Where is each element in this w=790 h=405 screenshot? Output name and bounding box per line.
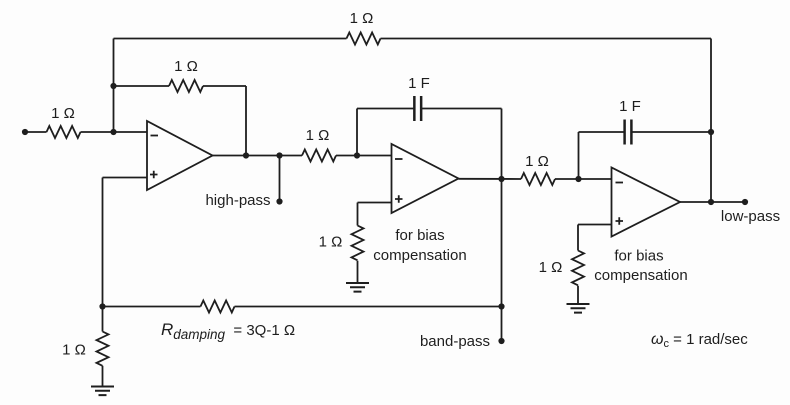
wire U3 output to low-pass terminal	[680, 201, 745, 203]
ground U2 bias	[346, 283, 369, 292]
capacitor C2 1 F	[625, 120, 632, 145]
node C junction dot feedback/output	[243, 152, 249, 158]
wire high-pass drop	[279, 156, 281, 202]
low-pass terminal dot	[742, 199, 748, 205]
wire node A up to node B and top net	[113, 39, 115, 133]
node B junction dot feedback tap	[110, 83, 116, 89]
wire damping net right segment	[235, 306, 502, 308]
wire cap C2 left vertical	[578, 132, 580, 179]
node H junction dot U3 minus	[575, 176, 581, 182]
wire U1 output	[213, 155, 303, 157]
wire cap C1 left horizontal	[357, 108, 414, 110]
resistor U1 feedback 1 ohm	[169, 80, 203, 92]
wire U3 plus down to bias resistor	[577, 225, 579, 251]
wire cap C2 right horizontal	[632, 131, 711, 133]
capacitor C1 1 F	[414, 96, 421, 121]
U1 plus sign	[150, 171, 158, 179]
wire U3 plus input left	[578, 224, 612, 226]
wire R23 to U3 minus input	[555, 178, 612, 180]
U3 plus sign	[616, 217, 624, 225]
wire U2 bias resistor to ground	[357, 261, 359, 283]
wire input to resistor	[25, 131, 47, 133]
svg-text:1 Ω: 1 Ω	[539, 259, 563, 276]
ground bottom-left	[91, 387, 114, 396]
wire U1 feedback right segment	[203, 85, 246, 87]
node junction dot U3 output	[708, 199, 714, 205]
wire U2 plus input left	[358, 202, 392, 204]
wire resistor to op-amp U1 minus input	[81, 131, 148, 133]
op-amp U1	[147, 121, 213, 190]
node F junction dot damping net	[99, 303, 105, 309]
wire node F down to ground resistor	[102, 307, 104, 332]
wire U1 plus input left	[103, 177, 148, 179]
svg-text:compensation: compensation	[594, 267, 687, 284]
resistor R input 1 ohm	[47, 126, 81, 138]
op-amp U3	[612, 168, 681, 237]
svg-text:1 Ω: 1 Ω	[525, 153, 549, 170]
wire cap C1 right horizontal	[421, 108, 501, 110]
svg-text:high-pass: high-pass	[205, 192, 270, 209]
resistor top feedback 1 ohm	[347, 33, 381, 45]
svg-text:low-pass: low-pass	[721, 208, 780, 225]
svg-text:1 Ω: 1 Ω	[62, 342, 86, 359]
ground U3 bias	[567, 304, 590, 313]
svg-text:Rdamping = 3Q-1 Ω: Rdamping = 3Q-1 Ω	[161, 320, 295, 342]
wire U1 feedback down to output	[245, 86, 247, 156]
wire R12 to U2 minus input	[336, 155, 392, 157]
svg-text:compensation: compensation	[373, 247, 466, 264]
U1 minus sign	[151, 135, 159, 137]
node U2 output junction dot	[498, 176, 504, 182]
op-amp U2	[392, 144, 459, 213]
band-pass terminal dot	[498, 338, 504, 344]
wire top net left segment	[114, 38, 347, 40]
svg-text:1 Ω: 1 Ω	[319, 234, 343, 251]
svg-text:for bias: for bias	[395, 227, 444, 244]
node A junction dot at U1 minus input	[110, 129, 116, 135]
wire band-pass vertical	[501, 179, 503, 341]
resistor 1 ohm to ground bottom-left	[97, 332, 109, 366]
svg-text:1 Ω: 1 Ω	[174, 58, 198, 75]
wire top net right segment	[381, 38, 712, 40]
resistor R23 1 ohm	[521, 173, 555, 185]
input terminal dot	[22, 129, 28, 135]
svg-text:ωc = 1 rad/sec: ωc = 1 rad/sec	[651, 331, 748, 350]
wire cap C1 right vertical to U2 output	[501, 109, 503, 180]
wire U1 feedback left segment	[114, 85, 170, 87]
svg-text:1 Ω: 1 Ω	[51, 105, 75, 122]
high-pass terminal dot	[276, 198, 282, 204]
node junction dot C2/low-pass net	[708, 129, 714, 135]
wire cap C1 left vertical	[356, 109, 358, 156]
wire U2 output	[459, 178, 522, 180]
svg-text:1 F: 1 F	[408, 75, 430, 92]
node D junction dot high-pass tap	[276, 152, 282, 158]
wire right vertical low-pass net	[710, 39, 712, 203]
wire resistor to ground bottom-left	[102, 366, 104, 387]
U3 minus sign	[616, 182, 624, 184]
wire damping net left segment	[103, 306, 201, 308]
wire U2 plus down to bias resistor	[357, 203, 359, 226]
svg-text:for bias: for bias	[614, 248, 663, 265]
resistor U3 bias 1 ohm	[572, 251, 584, 286]
wire cap C2 left horizontal	[579, 131, 625, 133]
svg-text:band-pass: band-pass	[420, 333, 490, 350]
U2 minus sign	[395, 158, 403, 160]
node G junction dot damping/band-pass	[498, 303, 504, 309]
U2 plus sign	[395, 195, 403, 203]
wire U3 bias resistor to ground	[577, 286, 579, 304]
svg-text:1 Ω: 1 Ω	[306, 127, 330, 144]
node E junction dot U2 minus	[354, 152, 360, 158]
resistor R12 1 ohm	[302, 150, 336, 162]
svg-text:1 F: 1 F	[619, 98, 641, 115]
resistor U2 bias 1 ohm	[352, 226, 364, 261]
svg-text:1 Ω: 1 Ω	[350, 10, 374, 27]
resistor Rdamping	[201, 301, 235, 313]
wire U1 plus down to damping net	[102, 178, 104, 307]
